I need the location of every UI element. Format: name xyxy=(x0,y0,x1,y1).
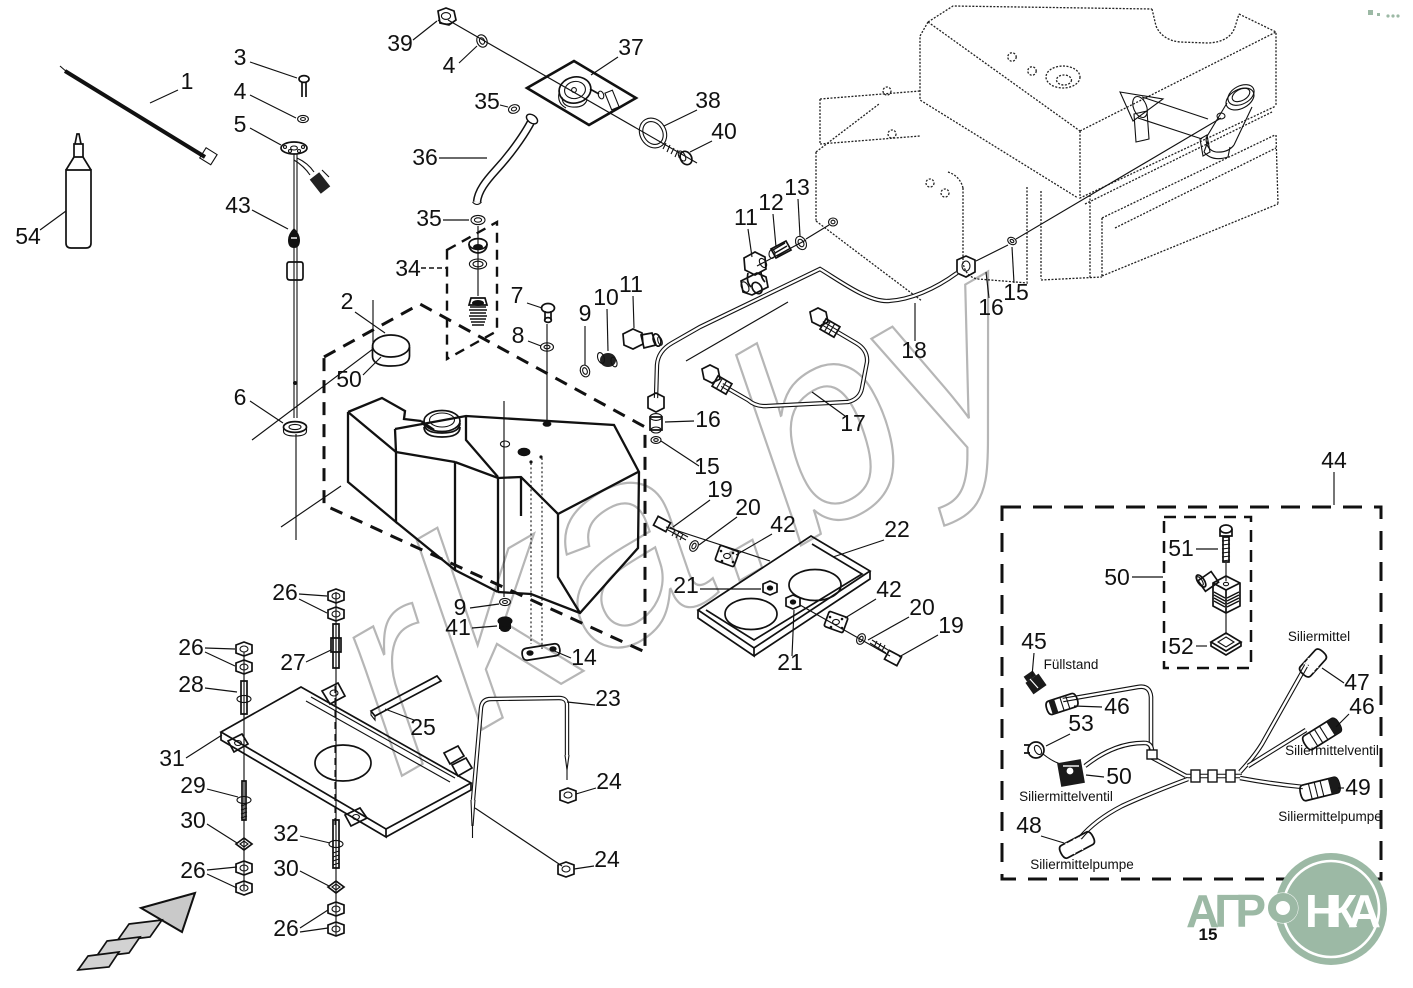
label 16 left xyxy=(665,406,721,432)
svg-text:46: 46 xyxy=(1349,693,1375,719)
bolt 27 xyxy=(331,624,341,668)
axis line 9-41 xyxy=(503,401,505,597)
svg-text:15: 15 xyxy=(1003,279,1029,305)
svg-text:26: 26 xyxy=(178,634,204,660)
svg-text:4: 4 xyxy=(234,78,247,104)
label 5 xyxy=(234,111,281,145)
bolt 19 a xyxy=(653,516,688,540)
svg-text:АГР: АГР xyxy=(1186,885,1266,937)
svg-text:19: 19 xyxy=(938,612,964,638)
svg-text:30: 30 xyxy=(180,807,206,833)
label 26 col1 bottom xyxy=(180,857,237,888)
label 39 xyxy=(387,21,437,56)
label 38 xyxy=(664,87,721,126)
svg-text:42: 42 xyxy=(876,576,902,602)
label 35 top xyxy=(474,88,508,114)
label 20 b xyxy=(868,594,935,640)
label 13 xyxy=(784,174,810,236)
tube 54 xyxy=(66,134,91,248)
dashed box 50 inner xyxy=(1164,517,1251,668)
svg-text:50: 50 xyxy=(1106,763,1132,789)
nut 21 a xyxy=(763,581,777,595)
washer 20 b xyxy=(855,632,867,646)
axis 19a-20a-42a xyxy=(666,527,770,561)
elbow 11 left group xyxy=(623,329,663,349)
svg-text:35: 35 xyxy=(474,88,500,114)
washer 20 a xyxy=(688,539,700,553)
plug 48 xyxy=(1058,830,1096,859)
label 46 b xyxy=(1336,693,1375,727)
svg-text:21: 21 xyxy=(673,572,699,598)
svg-text:19: 19 xyxy=(707,476,733,502)
svg-text:49: 49 xyxy=(1345,774,1371,800)
svg-text:28: 28 xyxy=(178,671,204,697)
filler neck assembly xyxy=(1200,80,1258,158)
label 15 left xyxy=(661,441,720,479)
label 44 xyxy=(1321,447,1347,505)
label 35 mid xyxy=(416,205,469,231)
svg-text:Siliermittelventil: Siliermittelventil xyxy=(1019,789,1113,804)
svg-text:26: 26 xyxy=(180,857,206,883)
label 19 a xyxy=(673,476,733,527)
svg-text:1: 1 xyxy=(181,68,194,94)
label 22 xyxy=(833,516,910,557)
machine body upper box xyxy=(920,6,1276,198)
label 29 xyxy=(180,772,238,798)
svg-text:10: 10 xyxy=(593,284,619,310)
ring 9 xyxy=(579,364,592,378)
flange 5 xyxy=(281,142,307,154)
valve 12 xyxy=(769,241,791,258)
svg-text:5: 5 xyxy=(234,111,247,137)
label 6 xyxy=(234,384,283,423)
label 21 a xyxy=(673,572,761,598)
bolt 19 b xyxy=(870,640,902,666)
plug 53 xyxy=(1024,742,1061,764)
plate tab top xyxy=(322,683,345,704)
svg-text:17: 17 xyxy=(840,410,866,436)
nut 26 d xyxy=(236,881,252,895)
bolt 51 xyxy=(1220,525,1232,562)
valve 50 body xyxy=(1194,563,1240,633)
label 50 coil xyxy=(1086,763,1132,789)
rod cylinder xyxy=(287,262,303,280)
bolt column 1 axis xyxy=(243,652,245,890)
label 28 xyxy=(178,671,237,697)
ring 15 right xyxy=(1006,236,1017,246)
washer 4 top xyxy=(475,33,489,49)
connector 46 b xyxy=(1301,717,1343,752)
svg-text:34: 34 xyxy=(395,255,421,281)
svg-text:13: 13 xyxy=(784,174,810,200)
spacer 30 b xyxy=(328,881,344,893)
svg-text:38: 38 xyxy=(695,87,721,113)
nut 26 e xyxy=(328,589,344,603)
svg-text:8: 8 xyxy=(512,322,525,348)
washer 13 xyxy=(793,234,808,251)
tray 22 xyxy=(698,536,870,656)
label 18 xyxy=(901,303,927,363)
plug 45 xyxy=(1024,670,1047,694)
label 48 xyxy=(1016,812,1064,843)
label 9 xyxy=(579,300,592,365)
svg-text:НКА: НКА xyxy=(1305,885,1381,937)
label 50 box xyxy=(1104,564,1163,590)
label 14 xyxy=(552,644,597,670)
hidden dotted lines to link 14 xyxy=(530,463,532,644)
label 7 xyxy=(511,282,542,308)
label 45 xyxy=(1021,628,1047,676)
axis 21b-42b-20b-19b xyxy=(800,605,890,656)
svg-text:30: 30 xyxy=(273,855,299,881)
plate 42 a xyxy=(715,545,739,567)
U-bracket 23 xyxy=(471,698,569,838)
label 34 xyxy=(395,255,446,281)
ring 9 lower xyxy=(500,598,511,605)
svg-text:24: 24 xyxy=(596,768,622,794)
machine step slab xyxy=(820,91,920,144)
pipe 18 tube xyxy=(656,269,957,398)
svg-text:3: 3 xyxy=(234,44,247,70)
rod dot xyxy=(293,381,297,385)
svg-text:Siliermittelpumpe: Siliermittelpumpe xyxy=(1278,809,1382,824)
dashed box 44 xyxy=(1002,507,1381,879)
label 20 a xyxy=(699,494,761,545)
svg-text:24: 24 xyxy=(594,846,620,872)
label 30 b xyxy=(273,855,329,886)
label 42 b xyxy=(845,576,902,618)
harness wire to 46b xyxy=(1248,730,1306,766)
svg-text:40: 40 xyxy=(711,118,737,144)
svg-text:Siliermittelpumpe: Siliermittelpumpe xyxy=(1030,857,1134,872)
cable tie 1 xyxy=(60,66,217,165)
screw 3 xyxy=(299,76,309,97)
bolt 28 xyxy=(237,681,251,714)
harness wire to 48 xyxy=(1080,779,1188,838)
svg-text:18: 18 xyxy=(901,337,927,363)
hose 36 xyxy=(473,112,540,204)
label 43 xyxy=(225,192,288,229)
washer 8 xyxy=(541,343,554,351)
harness wire from coil 50 xyxy=(1085,743,1152,766)
label 15 right xyxy=(1003,247,1029,305)
svg-text:Siliermittel: Siliermittel xyxy=(1288,629,1350,644)
svg-text:32: 32 xyxy=(273,820,299,846)
svg-text:27: 27 xyxy=(280,649,306,675)
svg-text:47: 47 xyxy=(1344,669,1370,695)
cap 50 xyxy=(373,335,410,366)
svg-text:45: 45 xyxy=(1021,628,1047,654)
leader leg to nut 24b xyxy=(475,808,562,866)
svg-text:26: 26 xyxy=(272,579,298,605)
plate tab left xyxy=(228,734,248,752)
hose 17 lower fitting xyxy=(702,365,732,394)
dashed box 34 xyxy=(447,222,497,359)
label 51 xyxy=(1168,535,1218,561)
harness wire to 49 xyxy=(1240,778,1303,787)
ring 38 xyxy=(634,113,672,153)
spacer 30 a xyxy=(236,838,252,850)
nut 26 f xyxy=(328,607,344,621)
seal stack 34 xyxy=(469,226,487,325)
nut 26 c xyxy=(236,861,252,875)
svg-text:52: 52 xyxy=(1168,633,1194,659)
elbow 11 upper xyxy=(744,252,768,296)
fitting 10 xyxy=(596,352,618,368)
connector 49 xyxy=(1299,776,1342,801)
svg-text:54: 54 xyxy=(15,223,41,249)
svg-text:20: 20 xyxy=(735,494,761,520)
svg-text:22: 22 xyxy=(884,516,910,542)
label 10 xyxy=(593,284,619,351)
label 37 xyxy=(591,34,644,75)
stud 29 xyxy=(237,781,251,820)
svg-text:21: 21 xyxy=(777,649,803,675)
float 43 xyxy=(288,228,300,248)
pipe 18 upper line to filler xyxy=(976,118,1221,261)
ring 6 xyxy=(284,422,307,436)
svg-text:2: 2 xyxy=(341,288,354,314)
svg-text:14: 14 xyxy=(571,644,597,670)
label 31 xyxy=(159,735,222,771)
label 16 right xyxy=(978,272,1004,320)
breather pipe on machine xyxy=(1120,92,1208,142)
label 11 xyxy=(619,271,643,328)
svg-text:37: 37 xyxy=(618,34,644,60)
harness wire from 46a xyxy=(1063,687,1186,776)
label 23 xyxy=(567,685,621,711)
axis line 7-8 xyxy=(546,324,548,420)
plate tabs right xyxy=(444,746,472,776)
svg-text:35: 35 xyxy=(416,205,442,231)
svg-text:29: 29 xyxy=(180,772,206,798)
label 4 top xyxy=(443,46,477,78)
label 8 xyxy=(512,322,541,348)
nut 26 h xyxy=(328,922,344,936)
svg-text:43: 43 xyxy=(225,192,251,218)
harness trunk xyxy=(1186,774,1242,779)
svg-text:11: 11 xyxy=(734,204,758,230)
label 3 xyxy=(234,44,297,78)
ring 15 left xyxy=(651,437,661,444)
label 49 xyxy=(1338,774,1371,800)
label 11 right xyxy=(734,204,758,257)
fitting 16 left xyxy=(650,414,662,433)
plate 42 b xyxy=(824,611,848,633)
label 26 col1 top xyxy=(178,634,235,666)
label 26 col2 bottom xyxy=(273,910,328,941)
svg-text:9: 9 xyxy=(579,300,592,326)
label 54 xyxy=(15,211,66,249)
svg-text:53: 53 xyxy=(1068,710,1094,736)
nut 26 g xyxy=(328,902,344,916)
nut 16 left on tube end xyxy=(648,393,664,412)
svg-text:46: 46 xyxy=(1104,693,1130,719)
machine middle channel xyxy=(1027,187,1102,282)
hose 17 xyxy=(722,323,867,406)
svg-text:31: 31 xyxy=(159,745,185,771)
leader line near hose 17 xyxy=(686,302,788,361)
ring 35 top xyxy=(507,103,520,114)
tiny green marks top right xyxy=(1368,10,1400,18)
svg-text:Siliermittelventil: Siliermittelventil xyxy=(1285,743,1379,758)
svg-text:44: 44 xyxy=(1321,447,1347,473)
tank main outline xyxy=(348,398,639,613)
label 46 a xyxy=(1074,693,1130,719)
thin panel lines behind tank xyxy=(252,300,373,540)
machine lower-right box xyxy=(1085,112,1278,276)
junction clips xyxy=(1147,750,1235,782)
svg-text:12: 12 xyxy=(758,189,784,215)
nut 39 xyxy=(438,8,456,25)
plate 37 xyxy=(527,61,636,125)
svg-text:23: 23 xyxy=(595,685,621,711)
sensor rod 43 xyxy=(294,154,330,418)
label 2 xyxy=(341,288,385,333)
label 53 xyxy=(1046,710,1094,746)
coil 50 xyxy=(1057,759,1085,787)
stud 41 xyxy=(498,616,513,632)
svg-text:11: 11 xyxy=(619,271,643,297)
label 52 xyxy=(1168,633,1207,659)
label 50 tank xyxy=(336,357,381,392)
direction arrow xyxy=(78,893,195,970)
logo AGRO NKA xyxy=(1186,853,1387,965)
plug 47 xyxy=(1298,647,1328,679)
svg-text:41: 41 xyxy=(445,614,471,640)
hose 17 upper fitting xyxy=(810,308,840,337)
label 17 xyxy=(812,392,866,436)
nut 24 b xyxy=(558,862,574,877)
svg-text:16: 16 xyxy=(695,406,721,432)
plug 7 xyxy=(542,304,555,323)
label 19 b xyxy=(899,612,964,657)
svg-text:16: 16 xyxy=(978,294,1004,320)
watermark rka.by xyxy=(275,181,1093,829)
label 21 b xyxy=(777,610,803,675)
nut 16 right xyxy=(957,256,975,277)
stud 32 xyxy=(329,820,343,868)
svg-text:25: 25 xyxy=(410,714,436,740)
connector 46 a xyxy=(1045,692,1080,715)
svg-text:39: 39 xyxy=(387,30,413,56)
harness wire to 47 xyxy=(1240,664,1307,772)
label 32 xyxy=(273,820,330,846)
seal 52 xyxy=(1211,633,1241,655)
label 36 xyxy=(412,144,487,170)
svg-text:51: 51 xyxy=(1168,535,1194,561)
bolt column 2 axis xyxy=(335,592,337,935)
svg-text:Füllstand: Füllstand xyxy=(1044,657,1099,672)
svg-text:50: 50 xyxy=(1104,564,1130,590)
label 47 xyxy=(1322,668,1370,695)
axis line 11-12-13 to machine hole xyxy=(757,240,806,266)
dashed box 2 xyxy=(324,304,645,652)
nut 26 b xyxy=(236,660,252,674)
label 40 xyxy=(690,118,737,152)
mounting plate 31 xyxy=(221,686,471,837)
svg-text:20: 20 xyxy=(909,594,935,620)
label 24 b xyxy=(574,846,620,872)
washer 4 xyxy=(298,115,309,122)
axis line 39-4-37-38-40 xyxy=(448,20,697,163)
label 24 a xyxy=(576,768,622,794)
strip 25 xyxy=(371,676,441,720)
machine lower-left box xyxy=(816,104,1028,301)
label 9 lower xyxy=(454,594,499,620)
svg-text:50: 50 xyxy=(336,366,362,392)
machine top face details xyxy=(883,53,1080,95)
filler port hole on machine xyxy=(806,218,838,239)
svg-text:48: 48 xyxy=(1016,812,1042,838)
tank filler neck xyxy=(424,411,460,438)
label 26 col2 top xyxy=(272,579,327,613)
label 1 xyxy=(150,68,193,103)
label 30 a xyxy=(180,807,237,843)
nut 21 b xyxy=(786,595,800,609)
label 42 a xyxy=(736,511,796,555)
link 14 xyxy=(521,643,560,661)
svg-text:26: 26 xyxy=(273,915,299,941)
label 12 xyxy=(758,189,784,247)
screw 40 xyxy=(663,143,694,167)
nut 26 a xyxy=(236,642,252,656)
union collar on pipe 18 xyxy=(739,273,768,295)
label 27 xyxy=(280,649,331,675)
plate tab bottom xyxy=(345,808,367,826)
label 25 xyxy=(385,709,436,740)
nut 24 a xyxy=(560,788,576,803)
label 41 xyxy=(445,614,497,640)
svg-text:7: 7 xyxy=(511,282,524,308)
label 4 xyxy=(234,78,296,118)
svg-text:42: 42 xyxy=(770,511,796,537)
svg-text:36: 36 xyxy=(412,144,438,170)
svg-text:6: 6 xyxy=(234,384,247,410)
ring 35 mid xyxy=(471,215,485,224)
svg-text:4: 4 xyxy=(443,52,456,78)
